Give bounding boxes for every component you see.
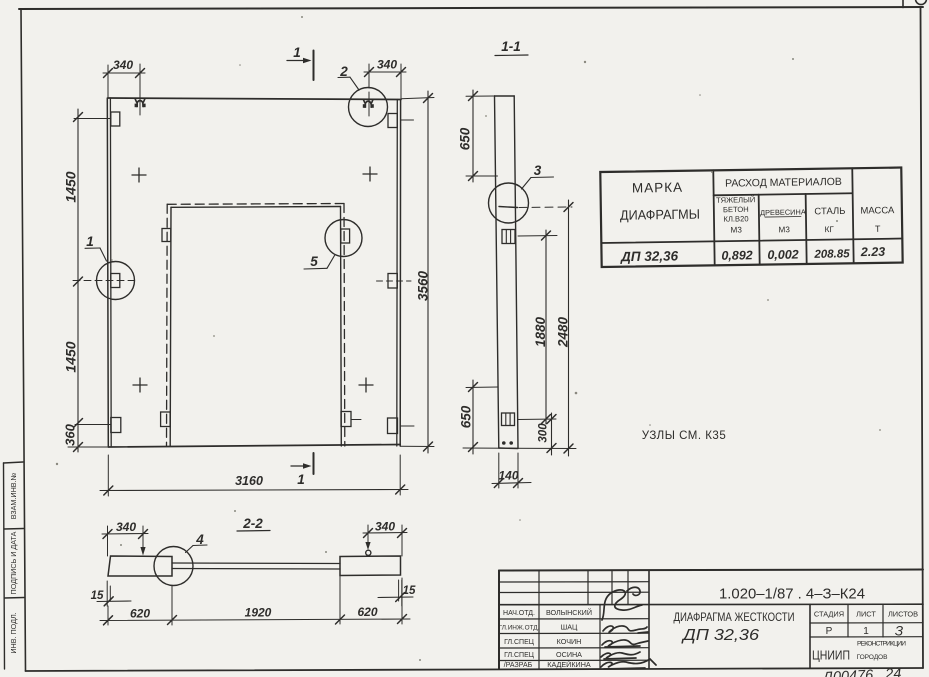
cross mark top-right: [363, 167, 377, 181]
svg-text:340: 340: [116, 520, 136, 534]
door opening dashed outline left: [166, 204, 169, 446]
svg-text:ПОДПИСЬ И ДАТА: ПОДПИСЬ И ДАТА: [9, 531, 18, 594]
svg-text:300: 300: [538, 423, 550, 443]
dim 2480: dimension line: [568, 200, 570, 456]
svg-text:0,892: 0,892: [721, 248, 753, 262]
dim 650 top ticks: [469, 92, 478, 101]
svg-text:КЛ.В20: КЛ.В20: [723, 214, 748, 223]
lifting anchor loop at x140: [135, 99, 145, 107]
section 2-2 right end block: [340, 556, 401, 576]
signature scribble row1: [602, 587, 642, 620]
title block signatures/center divider: [648, 570, 650, 668]
section mark 1 bottom: arrow: [291, 465, 308, 467]
dim 340 s22-left: dimension line: [102, 533, 148, 536]
panel bottom edge: [108, 445, 400, 448]
dim 650 top: dimension line: [472, 90, 474, 182]
svg-text:1-1: 1-1: [501, 39, 521, 54]
extension line from upper embed to 1880 dim: [518, 235, 557, 238]
svg-text:КАДЕЙКИНА: КАДЕЙКИНА: [547, 660, 591, 669]
svg-text:ШАЦ: ШАЦ: [561, 622, 578, 631]
table horizontal: rashod band: [714, 193, 853, 195]
dim 15 left: dimension line: [97, 600, 131, 603]
svg-text:360: 360: [63, 423, 78, 445]
signature scribble row4: [601, 652, 640, 659]
svg-text:ДИАФРАГМА ЖЕСТКОСТИ: ДИАФРАГМА ЖЕСТКОСТИ: [674, 610, 795, 624]
embed plate M1 left edge top: [111, 112, 120, 126]
dim 1880 ticks: [542, 231, 551, 240]
panel top edge: [108, 98, 401, 100]
svg-text:СТАЛЬ: СТАЛЬ: [814, 206, 845, 217]
svg-text:Р: Р: [826, 626, 833, 637]
svg-text:МАРКА: МАРКА: [632, 180, 683, 196]
dim 340 s22-left ticks: [103, 530, 112, 539]
embed centerline right jamb bottom: [351, 419, 361, 421]
svg-text:З: З: [895, 624, 904, 639]
detail circle 2: [349, 88, 388, 127]
cross mark bottom-left: [133, 378, 147, 392]
section 2-2 left end block: [108, 556, 172, 576]
section 1-1 column top edge: [495, 95, 515, 97]
title block left edge: [498, 571, 500, 669]
svg-text:15: 15: [403, 585, 416, 597]
dim 2480 ticks: [564, 203, 573, 212]
dim 300: dimension line: [551, 413, 553, 455]
svg-text:ИНВ. ПОДЛ.: ИНВ. ПОДЛ.: [9, 612, 18, 653]
cross mark bottom-right: [359, 378, 373, 392]
dim 340 s22-left down arrow: [142, 526, 144, 551]
dim 340 top-right: dimension line: [364, 71, 406, 73]
dim 300 ticks: [547, 415, 556, 424]
title block stadiya grid: [847, 604, 849, 637]
embed M1 centerline: [74, 118, 111, 120]
hatched embed lower in section: [502, 413, 515, 426]
embed plate right jamb top (detail 5): [341, 229, 350, 243]
svg-text:1450: 1450: [63, 341, 79, 372]
dim 340 top-right ticks: [365, 68, 374, 77]
svg-text:ВЗАМ.ИНВ.№: ВЗАМ.ИНВ.№: [9, 472, 18, 519]
frame right border: [921, 7, 924, 668]
section mark 1 bottom: cut line: [313, 453, 315, 474]
svg-text:ГЛ.СПЕЦ: ГЛ.СПЕЦ: [504, 652, 535, 659]
dim 340 top-left: dimension line: [103, 72, 145, 74]
svg-text:/РАЗРАБ: /РАЗРАБ: [504, 662, 533, 669]
embed plate left edge mid (detail 1): [111, 274, 120, 288]
detail circle 5: [325, 220, 362, 257]
left dim chain: dimension line: [77, 109, 79, 452]
svg-text:2.23: 2.23: [860, 245, 886, 259]
title block mini row line 1: [499, 581, 649, 583]
svg-text:2480: 2480: [556, 316, 571, 348]
section 2-2 web bottom line: [172, 568, 340, 571]
svg-text:650: 650: [458, 127, 473, 150]
embed plate left jamb top: [162, 229, 171, 242]
lifting anchor loop at x368 (detail 2): [363, 100, 373, 108]
dim 15 right: dimension line: [378, 596, 413, 599]
drawing sheet frame: top border: [19, 7, 923, 9]
svg-text:ГЛ.СПЕЦ: ГЛ.СПЕЦ: [504, 639, 535, 646]
top edge tick mark: [902, 0, 904, 8]
section mark 1 top: cut line: [313, 51, 315, 81]
svg-text:2-2: 2-2: [242, 516, 263, 531]
door opening top edge (solid): [171, 206, 341, 209]
anchor dots at column bottom: [502, 441, 506, 445]
cross mark top-left: [132, 168, 146, 182]
svg-text:620: 620: [357, 605, 377, 619]
svg-text:15: 15: [91, 590, 104, 602]
panel right edge inner line: [396, 100, 399, 447]
dim 140: dimension line: [492, 483, 531, 484]
dim 15 right tick: [396, 593, 405, 602]
dim 15 right: extension lines: [398, 580, 400, 601]
title block outer top edge: [499, 570, 923, 571]
svg-text:620: 620: [130, 607, 150, 621]
dim 340 s22-right down arrow: [367, 525, 369, 546]
table vertical: drevesina col: [806, 194, 807, 264]
dim 340 s22-right ticks: [364, 529, 373, 538]
embed plate right edge top: [388, 114, 397, 128]
frame left border: [21, 9, 26, 671]
svg-text:1.020–1/87 . 4–З–К24: 1.020–1/87 . 4–З–К24: [719, 586, 865, 603]
svg-text:140: 140: [498, 469, 518, 483]
svg-text:ОСИНА: ОСИНА: [556, 650, 582, 659]
title block mini row line 2: [499, 591, 649, 593]
dim 3160 ticks: [104, 486, 113, 495]
embed plate right edge mid: [388, 274, 397, 289]
svg-text:РЕКОНСТРИКЦИИ: РЕКОНСТРИКЦИИ: [857, 641, 906, 648]
door opening right jamb (solid): [340, 207, 343, 447]
anchor loop on right block top: [366, 550, 371, 555]
panel right edge outer line: [399, 100, 401, 447]
svg-text:ЛИСТОВ: ЛИСТОВ: [888, 610, 918, 619]
dim 15 left: extension lines: [106, 581, 108, 606]
svg-text:1: 1: [297, 472, 305, 487]
svg-text:3160: 3160: [235, 474, 263, 488]
signature scribble row2: [603, 626, 648, 633]
svg-text:РАСХОД МАТЕРИАЛОВ: РАСХОД МАТЕРИАЛОВ: [725, 176, 842, 190]
bottom chain ticks: [104, 616, 113, 625]
svg-text:1: 1: [863, 626, 869, 637]
stamp strip outer line: [4, 463, 5, 669]
svg-text:5: 5: [310, 254, 318, 269]
stamp cell line 1: [4, 462, 24, 463]
svg-text:ДРЕВЕСИНА: ДРЕВЕСИНА: [760, 207, 806, 217]
panel left edge inner line: [109, 98, 112, 446]
title block row line above names: [499, 603, 923, 606]
table horizontal: header/data divider: [601, 239, 902, 243]
svg-text:3560: 3560: [416, 270, 431, 301]
frame bottom border: [26, 668, 924, 671]
svg-text:ДИАФРАГМЫ: ДИАФРАГМЫ: [620, 207, 700, 223]
dim 650 bottom: dimension line: [472, 380, 474, 454]
left dim chain ticks: [74, 113, 83, 122]
svg-text:0,002: 0,002: [767, 248, 799, 262]
section 1-1 column left edge: [495, 96, 499, 448]
svg-text:УЗЛЫ СМ. К35: УЗЛЫ СМ. К35: [642, 430, 726, 442]
svg-text:КГ: КГ: [824, 225, 834, 234]
top-right partial page number glyph: [916, 0, 927, 5]
svg-text:1: 1: [86, 234, 94, 249]
dim 340 top-right extension lines: [368, 64, 370, 88]
dim 1880: dimension line: [545, 230, 547, 424]
title block center/right divider: [809, 604, 811, 668]
svg-text:ЛИСТ: ЛИСТ: [856, 610, 876, 619]
embed plate left edge bottom: [111, 418, 121, 433]
svg-text:ВОЛЫНСКИЙ: ВОЛЫНСКИЙ: [546, 608, 592, 617]
embed plate left jamb bottom: [161, 412, 171, 427]
embed plate right edge bottom: [388, 418, 398, 434]
svg-text:ДП 32,36: ДП 32,36: [620, 248, 679, 264]
section 1-1 column right edge: [514, 96, 518, 448]
svg-text:650: 650: [459, 405, 474, 428]
svg-text:НАЧ.ОТД.: НАЧ.ОТД.: [503, 610, 535, 617]
svg-text:М3: М3: [730, 225, 742, 234]
dim 340 s22-right: dimension line: [363, 532, 407, 535]
embed centerline right top: [401, 119, 414, 121]
dim 3160 extension lines: [107, 455, 109, 496]
svg-text:Т: Т: [875, 224, 881, 234]
embed bottom centerline: [75, 424, 111, 426]
svg-text:М3: М3: [778, 225, 790, 234]
signature scribble row3: [602, 640, 648, 647]
dashed centerline from circle 3 to 2480 dim: [519, 206, 572, 209]
detail circle 1: [97, 262, 135, 300]
embed plate right jamb bottom: [341, 412, 351, 427]
dim 140 ticks: [494, 479, 503, 488]
detail circle 3: [489, 183, 529, 223]
stamp cell line 3: [4, 597, 24, 600]
svg-text:ГЛ.ИНЖ.ОТД.: ГЛ.ИНЖ.ОТД.: [499, 624, 540, 631]
door opening dashed outline top: [167, 203, 344, 206]
dim 340 top-left ticks: [104, 69, 113, 78]
svg-text:340: 340: [113, 58, 133, 72]
detail circle 4: [154, 547, 193, 586]
table vertical: beton col: [759, 195, 760, 265]
svg-text:208.85: 208.85: [813, 248, 850, 261]
svg-text:1: 1: [293, 45, 301, 60]
dim 3160: dimension line: [100, 490, 408, 491]
dim 3560 extension lines: [401, 98, 434, 99]
door opening dashed outline right: [343, 204, 346, 447]
svg-text:ГОРОДОВ: ГОРОДОВ: [857, 654, 889, 661]
svg-text:СТАДИЯ: СТАДИЯ: [814, 610, 844, 619]
bottom chain extension lines: [107, 606, 109, 625]
svg-text:ДП 32,36: ДП 32,36: [681, 627, 759, 644]
section 1-1 column bottom edge: [499, 447, 518, 450]
hatched embed upper in section: [502, 230, 515, 244]
dim 650 top extension lines: [466, 95, 495, 97]
table vertical: marka col: [713, 170, 714, 265]
dim 140: extension lines: [498, 453, 500, 488]
signature scribble row5: [601, 659, 656, 669]
bottom extension line across section: [463, 447, 576, 450]
section mark 1 top: arrow: [287, 60, 308, 62]
stamp cell line 2: [4, 528, 24, 531]
title block names/signatures divider: [599, 605, 601, 669]
left dim chain bottom extension: [68, 446, 108, 448]
panel left edge outer line: [107, 98, 108, 446]
dim 15 left tick: [104, 597, 113, 606]
embed dashed centerline right mid: [377, 280, 412, 282]
svg-text:ЦНИИП: ЦНИИП: [812, 649, 850, 663]
extension line from lower embed to 300 dim: [518, 418, 556, 421]
dim 650 bottom ticks: [469, 383, 478, 392]
svg-text:1450: 1450: [63, 171, 79, 202]
materials table outer border: [600, 168, 902, 267]
dim 340 s22-left extension: [107, 526, 109, 556]
section 2-2 web top line: [172, 562, 340, 565]
svg-text:ТЯЖЕЛЫЙ: ТЯЖЕЛЫЙ: [716, 195, 755, 205]
embed mid dashed centerline: [73, 280, 134, 282]
embed centerline right bottom: [401, 425, 414, 427]
svg-text:1880: 1880: [533, 316, 548, 347]
dim 3560: dimension line: [427, 91, 429, 453]
svg-text:БЕТОН: БЕТОН: [723, 205, 749, 214]
table vertical: stal col: [852, 168, 853, 263]
door opening left jamb (solid): [169, 207, 172, 446]
svg-text:КОЧИН: КОЧИН: [557, 637, 582, 646]
svg-text:1920: 1920: [245, 606, 272, 620]
dim 340 top-left extension lines: [107, 65, 109, 97]
bottom dim chain 620/1920/620: dimension line: [100, 619, 410, 621]
dim 650 bottom extension lines: [466, 386, 498, 389]
title block mini-grid verticals: [538, 571, 540, 669]
dim 340 s22-right extension: [401, 525, 403, 556]
dim 3560 ticks: [424, 94, 433, 103]
svg-text:340: 340: [377, 58, 397, 72]
embed plate edge inside circle 3: [499, 207, 518, 208]
svg-text:3: 3: [534, 163, 542, 178]
svg-text:МАССА: МАССА: [860, 205, 895, 217]
title block name row lines: [499, 618, 649, 620]
svg-text:340: 340: [375, 520, 395, 534]
